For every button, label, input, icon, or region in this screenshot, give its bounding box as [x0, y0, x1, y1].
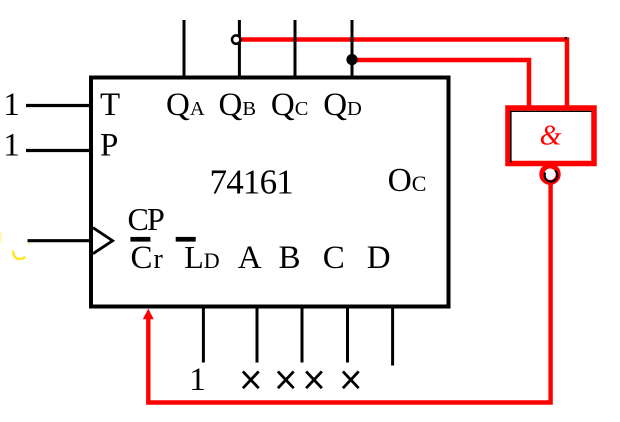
- label x (don't care) on B pin: [278, 371, 294, 388]
- pin LD (bottom): [202, 307, 205, 363]
- wire QD output to NAND input B (red): [352, 60, 529, 106]
- svg-text:74161: 74161: [210, 162, 294, 201]
- svg-text:1: 1: [189, 362, 206, 398]
- U2 output bubble black underdrawing arc: [545, 171, 558, 182]
- pin QB (top): [238, 20, 241, 77]
- NAND gate U2 body (red box): [508, 108, 594, 164]
- pin D (bottom): [391, 307, 394, 366]
- overbar of Cr: [130, 237, 150, 242]
- svg-text:D: D: [367, 240, 391, 276]
- arrowhead at Cr input (red): [143, 309, 154, 320]
- label x (don't care) on A pin: [243, 371, 259, 388]
- junction node QD (solder dot): [346, 54, 357, 65]
- svg-text:Cr: Cr: [131, 240, 164, 276]
- pin A (bottom): [256, 307, 259, 363]
- svg-text:CP: CP: [128, 201, 165, 237]
- wire P input: [26, 149, 91, 152]
- label x (don't care) on C pin: [306, 371, 322, 388]
- pin C (bottom): [346, 307, 349, 363]
- svg-text:T: T: [100, 87, 120, 123]
- NAND gate U2 black underdrawing (left+top inner edges): [510, 111, 592, 163]
- node QB tap (open circle): [232, 35, 240, 43]
- pin B (bottom): [301, 307, 304, 363]
- feedback wire NAND output to Cr input (red): [148, 183, 550, 403]
- clock edge triangle at CP pin: [93, 228, 113, 254]
- overbar of LD: [176, 237, 196, 242]
- label x (don't care) on D pin: [343, 371, 359, 388]
- stray yellow fleck under CP wire: [29, 243, 31, 245]
- wire QB output to NAND input A (red): [241, 40, 567, 107]
- pin QA (top): [183, 20, 186, 77]
- svg-text:P: P: [100, 128, 118, 164]
- IC U1 74161 body: [91, 78, 449, 307]
- stray yellow mark (left edge): [0, 232, 2, 243]
- svg-text:B: B: [279, 240, 301, 276]
- svg-text:&: &: [540, 121, 562, 152]
- pin QC (top): [294, 20, 297, 77]
- wire T input: [26, 104, 91, 107]
- pin QD (top): [351, 20, 354, 77]
- svg-text:1: 1: [3, 87, 20, 123]
- wire CP clock input: [28, 239, 92, 242]
- wire QD pin stub crossing artifact (black corner dot): [565, 37, 567, 39]
- U2 output inversion bubble (red): [542, 166, 558, 182]
- stray yellow crescent mark: [13, 252, 25, 259]
- svg-text:A: A: [238, 240, 262, 276]
- svg-text:C: C: [323, 240, 345, 276]
- svg-text:1: 1: [3, 128, 20, 164]
